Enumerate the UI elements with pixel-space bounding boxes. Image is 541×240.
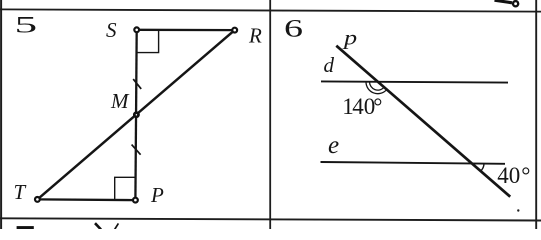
svg-text:6: 6 — [284, 14, 303, 42]
svg-text:P: P — [150, 183, 164, 207]
svg-text:40: 40 — [352, 94, 375, 119]
svg-text:e: e — [328, 132, 339, 159]
svg-text:5: 5 — [15, 12, 38, 38]
svg-text:°: ° — [521, 163, 530, 188]
svg-text:°: ° — [373, 94, 382, 119]
svg-text:R: R — [248, 24, 262, 48]
svg-text:T: T — [14, 180, 27, 204]
svg-text:S: S — [106, 18, 117, 42]
svg-text:p: p — [342, 27, 357, 50]
svg-text:40: 40 — [497, 163, 520, 188]
svg-text:d: d — [324, 53, 335, 77]
svg-text:M: M — [110, 89, 130, 113]
